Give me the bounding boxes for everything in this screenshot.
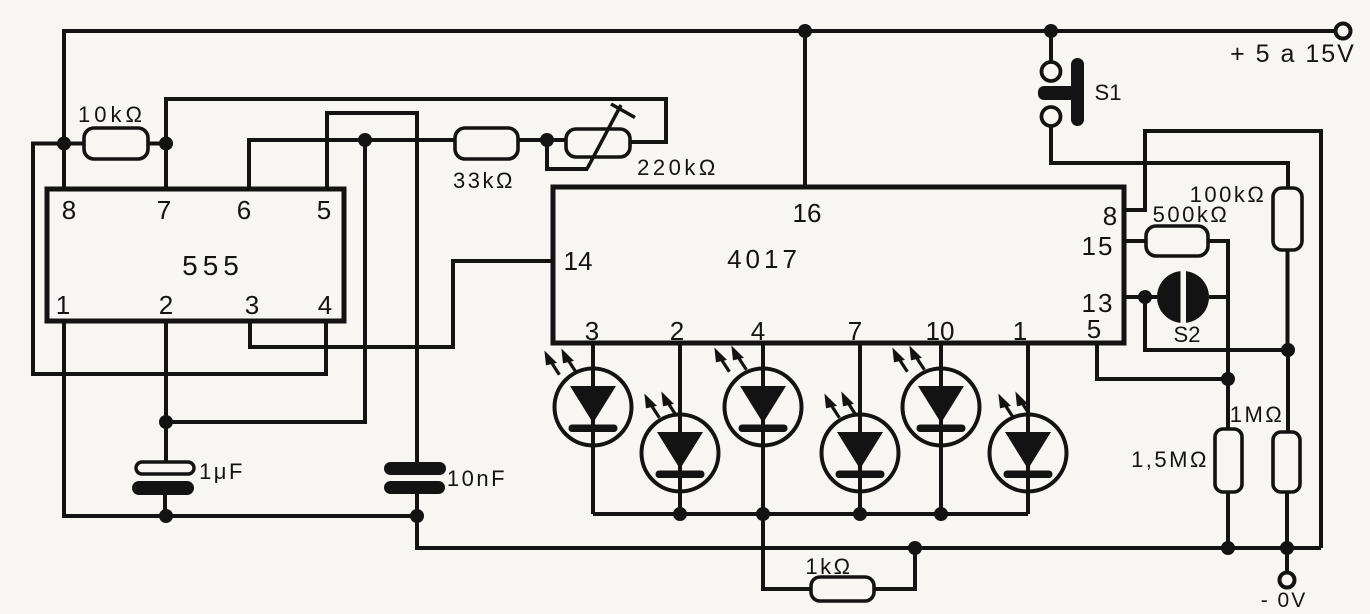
wire pin2 to 1uF <box>164 321 168 463</box>
wire 10k right lead <box>148 144 166 192</box>
resistor R1 10k body <box>84 128 148 159</box>
wire 0V terminal lead <box>1285 548 1289 572</box>
svg-text:10: 10 <box>926 316 955 346</box>
wire 220k wiper under-loop <box>547 140 588 169</box>
wire S1 top lead <box>1049 31 1053 62</box>
wire pin8 to right rail <box>1124 131 1321 548</box>
wire pin7 up over to 220k right <box>166 99 666 191</box>
resistor R7 1M body <box>1273 432 1300 492</box>
svg-text:14: 14 <box>564 246 593 276</box>
wire 1M top lead <box>1286 350 1290 432</box>
svg-text:10nF: 10nF <box>447 466 507 491</box>
svg-text:S2: S2 <box>1174 322 1201 347</box>
wire +V rail top <box>64 31 1335 191</box>
junction 1M rail <box>1280 541 1294 555</box>
wire left rail from 10k-left down to pin4 <box>33 144 326 375</box>
wire pin5 of 4017 to reset net <box>1097 343 1228 379</box>
svg-text:500kΩ: 500kΩ <box>1153 202 1230 227</box>
junction reset net <box>1221 372 1235 386</box>
wire LED6 vertical pin1 <box>1026 343 1030 514</box>
junction rail pin16 <box>798 24 812 38</box>
trimmer R3 220k body <box>566 129 630 157</box>
svg-text:1MΩ: 1MΩ <box>1230 402 1285 427</box>
junction LED bus 2 <box>673 507 687 521</box>
svg-text:4017: 4017 <box>727 244 801 274</box>
resistor R8 1k body <box>811 577 874 601</box>
terminal +V <box>1336 24 1351 39</box>
junction 10k left <box>57 137 71 151</box>
svg-text:8: 8 <box>1103 201 1117 231</box>
svg-text:555: 555 <box>182 250 244 281</box>
svg-text:15: 15 <box>1082 231 1115 261</box>
svg-text:6: 6 <box>237 195 251 225</box>
junction 100k-1M node <box>1281 343 1295 357</box>
svg-text:220kΩ: 220kΩ <box>637 155 719 180</box>
wire 1k left link from LED bus <box>763 514 811 589</box>
wire pin6 to 33k <box>249 140 455 191</box>
svg-text:5: 5 <box>1087 314 1101 344</box>
IC U1 555 box <box>47 189 344 321</box>
wire 500k right lead down to reset net <box>1208 241 1228 429</box>
svg-text:S1: S1 <box>1095 80 1122 105</box>
wire pin5 staple to 10nF <box>327 113 417 463</box>
LED D1 arrows <box>541 348 561 378</box>
svg-text:2: 2 <box>159 290 173 320</box>
svg-text:7: 7 <box>848 316 862 346</box>
svg-text:3: 3 <box>245 290 259 320</box>
wire LED2 vertical pin2 <box>678 343 682 514</box>
IC U2 4017 box <box>553 187 1124 343</box>
wire pin1 and left ground rail <box>64 321 417 516</box>
svg-text:- 0V: - 0V <box>1261 589 1308 612</box>
svg-text:1: 1 <box>1013 316 1027 346</box>
resistor R5 500k body <box>1146 226 1208 256</box>
wire S1 bottom to 100k top <box>1051 126 1288 189</box>
wire 10k left lead <box>64 142 84 146</box>
wire bottom 0V rail <box>417 516 1321 548</box>
LED D5 arrows <box>889 345 909 375</box>
capacitor C1 1uF bottom plate <box>132 481 194 495</box>
svg-text:33kΩ: 33kΩ <box>453 168 515 193</box>
wire pin13 stub to S2 and down to 1M node <box>1124 297 1288 350</box>
junction LED bus 4 <box>853 507 867 521</box>
wire pin15 stub <box>1124 239 1146 243</box>
svg-text:1kΩ: 1kΩ <box>805 554 852 579</box>
resistor R4 100k body <box>1273 188 1302 250</box>
junction 1.5M rail <box>1221 541 1235 555</box>
resistor R2 33k body <box>455 128 518 159</box>
LED D2 arrows <box>641 391 661 421</box>
resistor R6 1.5M body <box>1215 429 1242 492</box>
svg-text:1μF: 1μF <box>199 459 245 484</box>
wire 33k left-right leads <box>518 138 566 142</box>
wire LED4 vertical pin7 <box>858 343 862 514</box>
wire LED3 vertical pin4 <box>761 343 765 514</box>
junction LED bus 3 <box>756 507 770 521</box>
LED D3 <box>725 369 802 446</box>
LED D6 arrows <box>995 391 1015 421</box>
capacitor C2 10nF top plate <box>384 462 446 475</box>
wire LED cathode bus <box>593 512 1028 516</box>
wire 100k bottom lead <box>1286 250 1290 350</box>
LED D1 <box>555 369 632 446</box>
wire 1k right lead to 0V rail <box>874 548 915 589</box>
svg-text:1: 1 <box>56 290 70 320</box>
wire 1uF bottom lead <box>163 495 167 516</box>
junction pin2 node <box>159 415 173 429</box>
svg-text:3: 3 <box>585 316 599 346</box>
LED D3 arrows <box>711 345 731 375</box>
switch S1 push-button <box>1038 58 1084 126</box>
trimmer R3 wiper arrow <box>587 104 635 169</box>
svg-text:5: 5 <box>317 195 331 225</box>
wire 1M bottom lead <box>1285 492 1289 548</box>
terminal 0V <box>1280 573 1295 588</box>
svg-text:16: 16 <box>793 198 822 228</box>
svg-text:10kΩ: 10kΩ <box>78 102 146 127</box>
junction rail S1 <box>1044 24 1058 38</box>
wire pin16 of 4017 to rail <box>803 31 807 187</box>
LED D4 <box>822 415 899 492</box>
svg-text:4: 4 <box>318 290 332 320</box>
wire pin3 of 555 to pin14 of 4017 <box>250 261 553 347</box>
junction pin6 node <box>358 133 372 147</box>
LED D6 <box>990 415 1067 492</box>
LED D2 <box>642 415 719 492</box>
wire S2 right lead <box>1209 295 1228 299</box>
svg-text:+ 5 a 15V: + 5 a 15V <box>1230 40 1356 68</box>
LED D4 arrows <box>821 391 841 421</box>
wire 1.5M bottom lead <box>1226 492 1230 548</box>
junction 10k right <box>159 137 173 151</box>
junction LED bus 5 <box>934 507 948 521</box>
svg-text:7: 7 <box>157 195 171 225</box>
wire pins 2-6 link <box>166 140 365 422</box>
svg-text:8: 8 <box>62 195 76 225</box>
svg-text:4: 4 <box>751 316 765 346</box>
switch S2 push-button <box>1157 267 1209 329</box>
svg-text:1,5MΩ: 1,5MΩ <box>1131 447 1209 472</box>
svg-text:2: 2 <box>670 316 684 346</box>
wire LED1 vertical pin3 <box>591 343 595 514</box>
wire LED5 vertical pin10 <box>939 343 943 514</box>
capacitor C1 1uF top plate <box>136 462 194 474</box>
junction 1k right rail <box>908 541 922 555</box>
LED D5 <box>903 369 980 446</box>
junction pin13 <box>1138 290 1152 304</box>
junction 1uF ground <box>159 509 173 523</box>
wire 10nF bottom lead <box>415 493 419 516</box>
capacitor C2 10nF bottom plate <box>384 481 445 494</box>
junction 10nF ground <box>410 509 424 523</box>
junction 33k-220k <box>540 133 554 147</box>
